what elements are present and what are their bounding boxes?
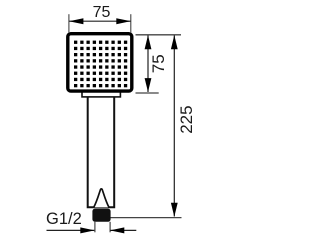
top dimension 75: left arrowhead [69, 18, 83, 24]
G1/2 thread connector (black block) [92, 209, 110, 222]
right side: top extension line from head [136, 34, 182, 36]
thread dimension: right-pointing arrowhead [80, 227, 94, 233]
shower head outline [68, 34, 132, 91]
top dimension 75: right arrowhead [116, 18, 130, 24]
right dimension 75: top arrowhead [145, 35, 152, 49]
svg-text:75: 75 [149, 54, 168, 73]
top dimension 75: right extension line [130, 14, 132, 33]
inner cone at handle bottom [94, 189, 109, 208]
extension line at connector bottom (for 225 dim) [101, 217, 182, 219]
handle body outline [87, 97, 116, 208]
nozzle row 1 [74, 41, 127, 44]
right dimension 225: dimension line [173, 36, 175, 217]
right side: extension line below head (for 75 dim) [136, 92, 159, 94]
nozzle row 5 [74, 65, 127, 68]
thread dimension: left line segment [47, 229, 95, 231]
thread dimension: left extension tick [94, 222, 96, 233]
nozzle row 2 [74, 47, 127, 50]
right dimension 75: dimension line [147, 36, 149, 93]
top dimension 75: left extension line [68, 14, 70, 33]
nozzle row 3 [74, 53, 127, 56]
neck collar below head [82, 88, 120, 97]
thread dimension: right line segment [110, 229, 136, 231]
nozzle row 8 [74, 84, 127, 87]
thread dimension: left-pointing arrowhead [110, 227, 124, 233]
right dimension 75: bottom arrowhead [145, 78, 152, 92]
nozzle row 4 [74, 59, 127, 62]
svg-text:G1/2: G1/2 [46, 210, 82, 228]
nozzle row 6 [74, 72, 127, 75]
nozzle row 7 [74, 78, 127, 81]
right dimension 225: bottom arrowhead [171, 203, 178, 217]
svg-text:75: 75 [93, 4, 111, 21]
top dimension label 75 [93, 4, 111, 21]
right dimension label 225 (rotated) [177, 105, 196, 133]
top dimension 75: dimension line [69, 20, 131, 22]
right dimension label 75 (rotated) [149, 54, 168, 73]
thread dimension: right extension tick [109, 222, 111, 233]
right dimension 225: top arrowhead [171, 35, 178, 49]
svg-text:225: 225 [177, 105, 196, 133]
thread label G1/2 [46, 210, 82, 228]
